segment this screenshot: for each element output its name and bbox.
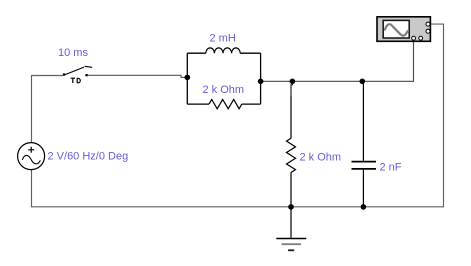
resistor R2 leads (290, 96, 292, 207)
node ground junction dot (288, 204, 294, 210)
node R2-top junction dot (290, 79, 296, 85)
ground lead (290, 207, 292, 238)
svg-text:10 ms: 10 ms (58, 47, 88, 59)
wire left loop (source up to switch, down and bottom rail, right rail up to scope) (32, 24, 444, 207)
svg-text:2 mH: 2 mH (210, 33, 236, 45)
node C1-bottom junction dot (361, 204, 367, 210)
node A junction dot (185, 75, 191, 81)
inductor L1 2 mH (206, 48, 240, 53)
AC source plus sign (28, 147, 34, 153)
AC source V1 circle (18, 143, 45, 170)
oscilloscope waveform (385, 24, 408, 35)
capacitor C1 plates (352, 162, 377, 169)
svg-text:2 V/60 Hz/0 Deg: 2 V/60 Hz/0 Deg (48, 150, 129, 162)
switch label TD (71, 78, 81, 83)
switch S1 (TD time-delay switch) (63, 66, 92, 76)
ground symbol (276, 239, 306, 251)
oscilloscope terminals (412, 22, 430, 40)
wire node B to oscilloscope bottom terminal (261, 41, 414, 81)
oscilloscope XSC1 body (377, 17, 430, 42)
oscilloscope screen (383, 20, 409, 38)
svg-text:2 nF: 2 nF (380, 161, 402, 173)
node C1-top junction dot (360, 79, 366, 85)
resistor R1 2 k Ohm (horizontal zigzag) (209, 99, 242, 108)
node B junction dot (258, 79, 264, 85)
svg-text:2 k Ohm: 2 k Ohm (203, 84, 245, 96)
wire jog at resistor R2 top (291, 81, 292, 96)
svg-text:2 k Ohm: 2 k Ohm (300, 152, 342, 164)
parallel branch frame (L1 / R1 loop) (187, 53, 260, 104)
resistor R2 2 k Ohm (vertical zigzag) (287, 138, 296, 172)
wire switch to parallel-branch node A (88, 75, 186, 77)
AC source sine (22, 155, 40, 163)
capacitor C1 leads (362, 81, 364, 207)
